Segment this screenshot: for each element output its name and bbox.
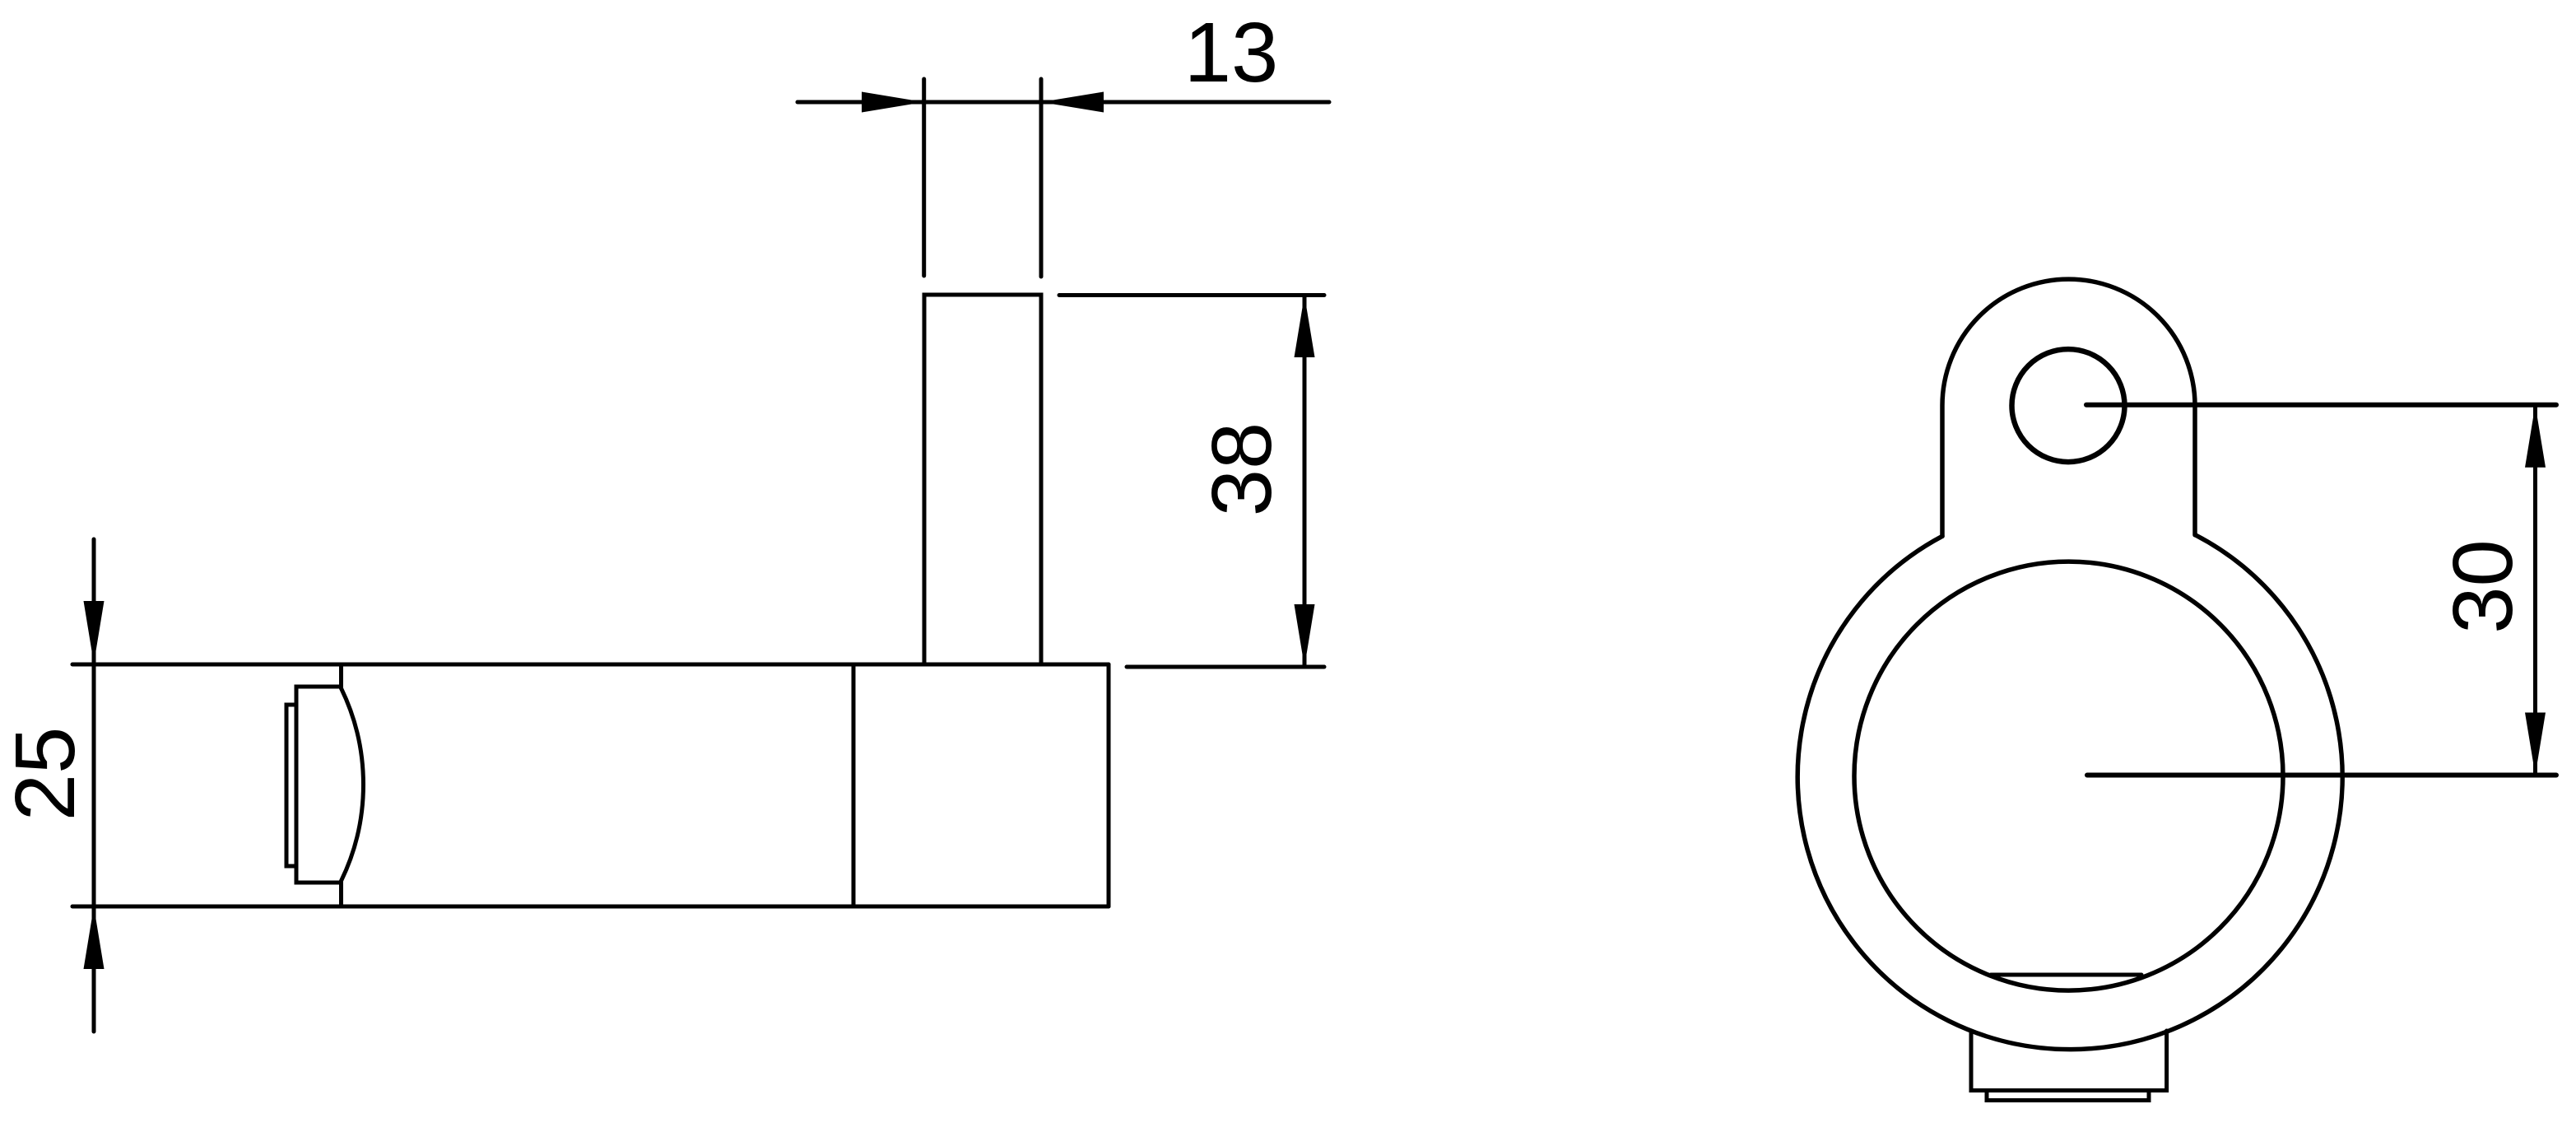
dimension 13: extension line left bbox=[922, 79, 926, 276]
saddle top edge seen through bore bbox=[1991, 973, 2141, 977]
tube body bottom outline (side view) bbox=[72, 905, 1109, 909]
end cap body bbox=[296, 687, 340, 883]
dimension 13: arrowhead pointing left bbox=[1041, 92, 1104, 113]
dimension 38: arrowhead pointing up bbox=[1295, 296, 1315, 358]
ring outer circle (front view) bbox=[1797, 535, 2342, 1050]
svg-text:30: 30 bbox=[2435, 539, 2530, 634]
tube open end lower edge segment bbox=[339, 882, 343, 906]
saddle base strip bbox=[1987, 1091, 2149, 1101]
saddle block outline bbox=[1971, 1031, 2167, 1091]
ring bore inner circle bbox=[1854, 561, 2283, 990]
dimension 25: arrowhead pointing up bbox=[84, 906, 105, 969]
svg-text:13: 13 bbox=[1184, 5, 1279, 100]
dimension 25: arrowhead pointing down bbox=[84, 601, 105, 664]
lug outline with rounded top bbox=[1942, 279, 2195, 536]
collar right end edge bbox=[1107, 664, 1111, 906]
leader line from lug hole centre bbox=[2086, 403, 2556, 408]
tube body top outline (side view) bbox=[72, 663, 1109, 667]
dimension 38: arrowhead pointing down bbox=[1295, 604, 1315, 667]
end cap domed face arc bbox=[342, 688, 364, 881]
dimension 30: dimension line bbox=[2533, 405, 2537, 776]
vertical pin (spigot) outline bbox=[924, 295, 1041, 664]
dimension 13: extension line right bbox=[1039, 79, 1044, 277]
end cap flange bbox=[286, 705, 296, 866]
tube open end upper edge segment bbox=[339, 664, 343, 688]
dimension 38: extension line at pin top bbox=[1059, 293, 1324, 297]
collar divider line bbox=[852, 664, 856, 906]
lug hole bbox=[2012, 349, 2125, 462]
svg-text:38: 38 bbox=[1194, 422, 1289, 517]
dimension 25: dimension line bbox=[92, 539, 96, 1032]
leader line from bore centre bbox=[2087, 773, 2556, 778]
dimension 13: arrowhead pointing right bbox=[862, 92, 924, 113]
svg-text:25: 25 bbox=[0, 727, 92, 822]
dimension 13: dimension line bbox=[797, 100, 1329, 105]
dimension 30: arrowhead pointing up bbox=[2525, 405, 2546, 468]
dimension 38: dimension line bbox=[1303, 296, 1307, 668]
dimension 38: extension line at collar top bbox=[1127, 665, 1324, 669]
dimension 30: arrowhead pointing down bbox=[2525, 713, 2546, 776]
